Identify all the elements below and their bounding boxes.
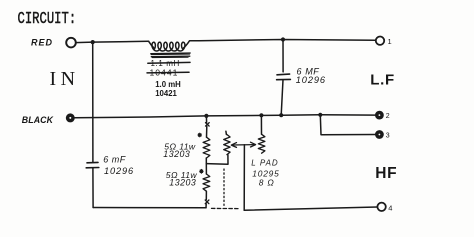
- label C2 part 10296: [104, 166, 134, 176]
- label 1: [388, 37, 392, 46]
- wire R1 bottom to junction: [205, 158, 207, 174]
- terminal 2: [376, 112, 382, 118]
- svg-text:2: 2: [386, 113, 390, 120]
- wire C1 bottom lead: [281, 80, 283, 115]
- wire L-pad top lead: [260, 115, 262, 134]
- wire wiper to terminal 4: [244, 207, 377, 210]
- junction node B at C1 top: [281, 37, 285, 41]
- inductor L1 exit stub: [183, 41, 199, 49]
- label R2 value 5 ohm 11w: [166, 170, 198, 180]
- solder mark X bottom: [205, 200, 209, 204]
- inductor L1 core line upper: [151, 53, 190, 55]
- label 1.1 mH crossed out: [151, 59, 180, 68]
- resistor R1 zigzag: [203, 137, 210, 158]
- solder mark X top: [206, 123, 210, 127]
- svg-text:10421: 10421: [155, 89, 177, 98]
- label C2 value 6 mF: [103, 155, 126, 165]
- label C1 part 10296: [296, 75, 326, 85]
- svg-text:IN: IN: [50, 68, 80, 90]
- label C1 value 6 MF: [297, 66, 320, 76]
- label 1.0 mH printed: [155, 80, 181, 89]
- terminal 1: [376, 37, 384, 45]
- junction at C1 bottom: [279, 113, 283, 117]
- wire C1 top lead: [282, 40, 284, 72]
- label 3: [386, 133, 390, 140]
- wire X to bottom bus: [205, 204, 207, 208]
- capacitor C2 plate top: [87, 161, 98, 163]
- capacitor C1 plate top: [277, 73, 290, 76]
- junction at L-pad top: [259, 113, 263, 117]
- svg-text:L.F: L.F: [370, 71, 395, 88]
- label R2 part 13203: [169, 178, 196, 188]
- svg-text:1: 1: [388, 37, 392, 46]
- asterisk mark for R2: [200, 170, 203, 174]
- wire R2 bottom: [205, 191, 207, 199]
- asterisk mark for R1: [198, 133, 201, 137]
- label R1 value 5 ohm 11w: [164, 141, 196, 151]
- wire BLACK bus: [75, 115, 375, 118]
- svg-text:CIRCUIT:: CIRCUIT:: [18, 10, 77, 28]
- capacitor C2 plate bottom: [86, 167, 99, 169]
- label L-pad part 10295: [252, 168, 279, 178]
- junction at terminal 3 branch: [318, 113, 322, 117]
- label HF: [375, 165, 397, 182]
- label IN: [50, 68, 80, 90]
- wire inductor to terminal 1: [199, 40, 376, 41]
- junction node A on red wire: [91, 40, 95, 44]
- wiper double arrow: [233, 144, 254, 146]
- terminal RED input: [66, 38, 76, 48]
- svg-text:13203: 13203: [163, 149, 190, 159]
- terminal 4: [377, 203, 385, 211]
- wire bottom bus: [93, 207, 206, 209]
- inductor L1 coil: [152, 42, 185, 51]
- wire branch to terminal 3: [320, 115, 375, 135]
- resistor RM zigzag: [224, 135, 230, 155]
- svg-text:4: 4: [388, 203, 392, 212]
- strikethrough on 1.1 mH: [148, 61, 190, 64]
- svg-text:3: 3: [386, 133, 390, 140]
- label 4: [388, 203, 392, 212]
- label 10421 printed: [155, 89, 177, 98]
- svg-text:10296: 10296: [296, 75, 326, 85]
- capacitor C1 plate bottom: [277, 78, 291, 80]
- inductor L1 entry stub: [149, 41, 155, 48]
- terminal BLACK input: [67, 115, 73, 121]
- resistor RM ganged section stub: [225, 131, 228, 134]
- label L PAD: [251, 159, 278, 168]
- label 10441 crossed out: [150, 68, 179, 78]
- wire red branch down to C2: [92, 42, 94, 162]
- label BLACK: [22, 115, 54, 125]
- wire X to R1: [206, 126, 208, 137]
- label R1 part 13203: [163, 149, 190, 159]
- resistor R2 zigzag: [203, 174, 210, 191]
- dashed gang link horizontal: [212, 207, 239, 209]
- label RED: [31, 38, 53, 48]
- wire chain top lead: [205, 116, 207, 123]
- svg-text:6 mF: 6 mF: [103, 155, 126, 165]
- title CIRCUIT:: [18, 10, 77, 28]
- wire junction to middle resistor bottom: [206, 155, 228, 165]
- wire RED terminal to inductor: [76, 41, 149, 42]
- dashed gang link vertical: [223, 169, 225, 207]
- label 2: [386, 113, 390, 120]
- svg-text:BLACK: BLACK: [22, 115, 54, 125]
- junction at HF chain top: [204, 114, 208, 118]
- label L.F: [370, 71, 395, 88]
- svg-text:RED: RED: [31, 38, 53, 48]
- inductor L1 core line lower: [151, 56, 190, 57]
- svg-text:HF: HF: [375, 165, 397, 182]
- wire wiper down to terminal 4 wire: [243, 145, 245, 210]
- terminal 3: [376, 132, 382, 138]
- svg-text:10296: 10296: [104, 166, 134, 176]
- svg-text:8 Ω: 8 Ω: [259, 178, 275, 188]
- svg-text:13203: 13203: [169, 178, 196, 188]
- wire C2 bottom lead: [92, 168, 94, 208]
- label L-pad 8 ohm: [259, 178, 275, 188]
- svg-text:L PAD: L PAD: [251, 159, 278, 168]
- strikethrough on 10441: [147, 71, 189, 74]
- resistor RL L-pad element zigzag: [258, 134, 265, 153]
